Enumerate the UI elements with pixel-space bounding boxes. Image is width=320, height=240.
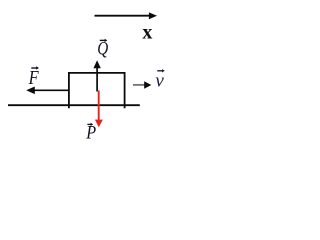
svg-text:x: x [142,22,152,44]
force arrow P (down, red) [95,91,103,128]
vector label P [85,121,96,143]
force arrow F (left) [26,87,68,95]
ground surface line [8,104,140,106]
vector label v [155,69,164,91]
svg-text:P: P [85,121,96,142]
vector label Q [97,38,108,59]
svg-text:v: v [155,71,164,92]
svg-text:Q: Q [97,38,108,59]
block (box on surface) [69,73,125,108]
svg-text:F: F [28,66,40,88]
vector label F [28,66,40,88]
x-axis arrow [95,12,158,19]
force arrow Q (up) [93,60,100,91]
velocity arrow v (right) [133,81,151,88]
